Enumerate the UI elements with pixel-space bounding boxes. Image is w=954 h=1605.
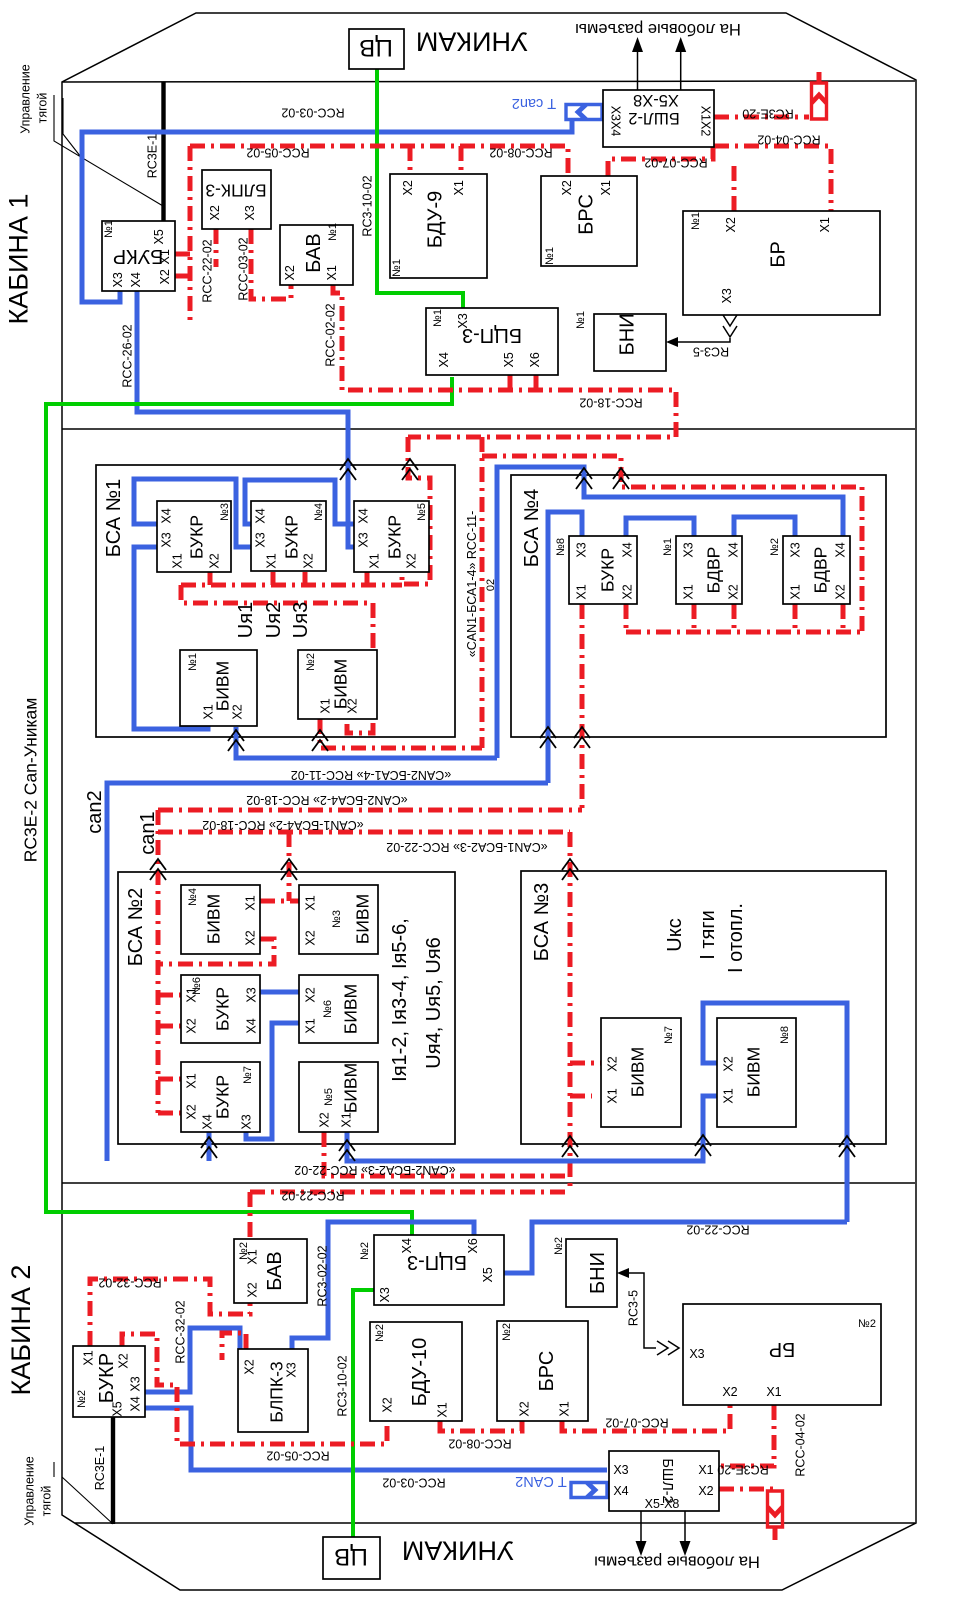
wire blue BUKR8 X4 to BDVR1 X3 bbox=[626, 518, 694, 536]
wire RC3E-20 (red, BShL-2 X1 to corner connector) bbox=[714, 72, 819, 117]
svg-text:БСА №4: БСА №4 bbox=[521, 489, 543, 567]
svg-text:БУКР: БУКР bbox=[212, 1075, 232, 1119]
svg-text:RCC-04-02: RCC-04-02 bbox=[794, 1413, 808, 1476]
svg-text:X1X2: X1X2 bbox=[699, 106, 713, 137]
wire BR X2 red stub bbox=[732, 160, 737, 211]
svg-text:БАВ: БАВ bbox=[264, 1251, 286, 1290]
box BIVM no3 (BSA2) bbox=[299, 885, 378, 954]
connector RC3-5 (cab2, black chevrons pointing right) bbox=[657, 1341, 679, 1355]
cable chevron BSA3 top red bbox=[562, 859, 578, 880]
wire blue CAN2-BSA2-3 (BIVM5 X1 to BIVM8 X1) bbox=[347, 1096, 717, 1161]
svg-text:«CAN1-БСА4-2» RCC-18-02: «CAN1-БСА4-2» RCC-18-02 bbox=[202, 818, 363, 832]
svg-text:№1: №1 bbox=[187, 653, 199, 671]
svg-text:№1: №1 bbox=[103, 220, 115, 238]
wire red CAN1-BSA4-2 / CAN1-BSA2-3 horizontal bbox=[158, 830, 570, 835]
connector T CAN2 (cab2, blue, pointing right into BShL-2 X4) bbox=[571, 1483, 607, 1498]
svg-text:Uя3: Uя3 bbox=[290, 602, 312, 638]
svg-text:X1: X1 bbox=[606, 1088, 620, 1103]
box BIVM no1 bbox=[180, 650, 257, 726]
separator line bottom (UNIKAM band) bbox=[75, 1522, 915, 1524]
box BIVM no2 bbox=[298, 650, 377, 719]
box BSA no3 bbox=[521, 871, 886, 1144]
svg-text:X1: X1 bbox=[436, 1402, 450, 1417]
box BDU-10 (cab2) bbox=[370, 1322, 462, 1421]
svg-text:X6: X6 bbox=[466, 1238, 480, 1253]
wire red trunk into BSA4 (BDVR2 X4 side) bbox=[482, 456, 862, 632]
wire red RCC-32-02 (BUKR X1 to BAV X2) bbox=[90, 1279, 250, 1346]
svg-text:БИВМ: БИВМ bbox=[212, 661, 232, 711]
svg-text:X2: X2 bbox=[304, 930, 318, 945]
svg-text:№1: №1 bbox=[690, 212, 702, 230]
wire blue BUKR3 X3 down to BIVM1 X1 bbox=[134, 547, 208, 729]
wire red RCC-08-02 (BDU-10 X1 to BRS X2) bbox=[440, 1421, 522, 1431]
arrowhead into BNI bbox=[666, 337, 678, 347]
svg-text:X1: X1 bbox=[368, 553, 382, 568]
box BUKR no4 bbox=[251, 501, 326, 571]
svg-text:RCC-08-02: RCC-08-02 bbox=[448, 1437, 511, 1451]
box BIVM no8 (BSA3) bbox=[717, 1018, 796, 1127]
svg-text:RC3E-2 Can-Уникам: RC3E-2 Can-Уникам bbox=[20, 698, 40, 863]
svg-text:X4: X4 bbox=[160, 508, 174, 523]
wire red BUKR8 X1 down to RCC-18-02 trunk bbox=[580, 604, 585, 810]
wire blue BSA4 entry bus to BDVR2 X4 bbox=[497, 467, 843, 758]
svg-text:X4: X4 bbox=[254, 508, 268, 523]
svg-text:RC3-5: RC3-5 bbox=[627, 1290, 641, 1326]
svg-text:№5: №5 bbox=[323, 1088, 335, 1106]
svg-text:X2: X2 bbox=[727, 584, 741, 599]
wire blue BUKR4 X3 to BUKR3 X4 bbox=[134, 479, 252, 547]
box BRS (cab1) bbox=[541, 176, 637, 266]
svg-text:БУКР: БУКР bbox=[96, 1353, 118, 1403]
wire blue RCC-03-02 (cab2, BUKR X4 to BShL-2 X3) bbox=[145, 1408, 607, 1470]
box BLPK-3 (cab1) bbox=[202, 170, 271, 229]
cable chevron BSA4 top red bbox=[613, 468, 629, 489]
svg-text:X2: X2 bbox=[724, 217, 738, 232]
svg-text:X2: X2 bbox=[606, 1056, 620, 1071]
wire blue BUKR7 X3 to BIVM6 X1 bbox=[246, 1023, 299, 1139]
svg-text:X4: X4 bbox=[129, 272, 143, 287]
svg-text:X2: X2 bbox=[185, 1104, 199, 1119]
cable chevron BSA4 top blue bbox=[576, 468, 592, 489]
svg-text:Управление: Управление bbox=[19, 64, 33, 134]
svg-text:БИВМ: БИВМ bbox=[352, 894, 372, 944]
svg-text:№2: №2 bbox=[359, 1242, 371, 1260]
svg-text:X5-X8: X5-X8 bbox=[633, 91, 679, 109]
wire green RC3-10-02 (cab2, BTsP-3 X3 to TsV) bbox=[353, 1290, 374, 1537]
svg-text:I тяги: I тяги bbox=[697, 910, 719, 960]
cable chevron BSA1 top red bbox=[402, 459, 418, 480]
box BUKR no3 bbox=[157, 501, 231, 572]
svg-text:X1: X1 bbox=[575, 584, 589, 599]
svg-text:X1: X1 bbox=[599, 180, 613, 195]
svg-text:БСА №3: БСА №3 bbox=[531, 883, 553, 961]
svg-text:№1: №1 bbox=[544, 247, 556, 265]
svg-text:Iя1-2, Iя3-4, Iя5-6,: Iя1-2, Iя3-4, Iя5-6, bbox=[389, 918, 411, 1082]
svg-text:RC3E-20: RC3E-20 bbox=[742, 107, 793, 121]
svg-text:X4: X4 bbox=[400, 1238, 414, 1253]
svg-text:БСА №2: БСА №2 bbox=[125, 888, 147, 966]
cable chevron BSA3 bottom red bbox=[562, 1136, 578, 1157]
wire red CAN1-BSA1-4 RCC-11-02 vertical trunk bbox=[480, 437, 485, 748]
svg-text:RC3E-1: RC3E-1 bbox=[93, 1446, 107, 1491]
box BIVM no6 (BSA2) bbox=[299, 975, 378, 1043]
svg-text:БР: БР bbox=[768, 241, 790, 267]
cable chevron BSA3 bottom blue right bbox=[839, 1136, 855, 1157]
svg-text:БЦП-3: БЦП-3 bbox=[462, 324, 522, 346]
wire blue BIVM8 X2 up-over-down to cab2 RCC-22-02 bbox=[703, 1003, 847, 1222]
connector T can2 (blue, pointing right into BShL-2) bbox=[566, 105, 602, 120]
svg-text:№1: №1 bbox=[432, 309, 444, 327]
svg-text:X4: X4 bbox=[834, 542, 848, 557]
svg-text:X2: X2 bbox=[231, 704, 245, 719]
connector RC3E-20 (cab2, red, pointing down) bbox=[768, 1491, 783, 1527]
svg-text:X2: X2 bbox=[304, 987, 318, 1002]
box BSA no4 bbox=[511, 475, 886, 737]
svg-text:№1: №1 bbox=[662, 538, 674, 556]
box BSA no1 bbox=[96, 465, 455, 737]
svg-text:БУКР: БУКР bbox=[212, 987, 232, 1031]
svg-text:КАБИНА 2: КАБИНА 2 bbox=[6, 1265, 36, 1396]
svg-text:X1: X1 bbox=[265, 553, 279, 568]
svg-text:«CAN1-БСА1-4» RCC-11-: «CAN1-БСА1-4» RCC-11- bbox=[465, 511, 479, 657]
box BR (cab1) bbox=[683, 211, 880, 315]
box TsV (cab1) bbox=[349, 29, 404, 69]
wire blue BLPK-3 X3 to BTsP-3 X6 bbox=[292, 1222, 474, 1349]
svg-text:RCC-07-02: RCC-07-02 bbox=[644, 156, 707, 170]
box TsV (cab2) bbox=[323, 1537, 380, 1579]
svg-text:RCC-32-02: RCC-32-02 bbox=[98, 1276, 161, 1290]
box BIVM no7 (BSA3) bbox=[601, 1018, 681, 1127]
svg-text:На лобовые разъемы: На лобовые разъемы bbox=[575, 20, 741, 38]
svg-text:X1: X1 bbox=[722, 1088, 736, 1103]
cable chevron BSA1 bottom blue bbox=[228, 730, 244, 751]
svg-text:X1: X1 bbox=[82, 1350, 96, 1365]
svg-text:X3: X3 bbox=[575, 542, 589, 557]
wire RC3-5 (cab2, black, BR X3 to BNI) bbox=[623, 1273, 656, 1348]
svg-text:БСА №1: БСА №1 bbox=[103, 479, 125, 557]
svg-text:X2: X2 bbox=[381, 1397, 395, 1412]
svg-text:X3: X3 bbox=[111, 272, 125, 287]
svg-text:№7: №7 bbox=[663, 1026, 675, 1044]
wire red trunk into BSA3 (BIVM7) down to cab2 bbox=[570, 832, 601, 1192]
svg-text:БУКР: БУКР bbox=[281, 515, 301, 559]
svg-text:RCC-05-02: RCC-05-02 bbox=[246, 146, 309, 160]
arrowhead into BNI (cab2) bbox=[617, 1268, 629, 1278]
svg-text:X3: X3 bbox=[682, 542, 696, 557]
box BUKR no8 (BSA4) bbox=[569, 536, 637, 604]
wire red CAN2-BSA2-3 RCC-22-02 (BIVM5 X2) bbox=[324, 1132, 570, 1176]
svg-text:БУКР: БУКР bbox=[186, 515, 206, 559]
svg-text:RCC-07-02: RCC-07-02 bbox=[605, 1416, 668, 1430]
box BUKR no2 (cab2) bbox=[73, 1346, 145, 1417]
svg-text:X3: X3 bbox=[689, 1347, 704, 1361]
svg-text:БИВМ: БИВМ bbox=[340, 984, 360, 1034]
box BNI (cab1) bbox=[594, 314, 666, 371]
svg-text:RC3-5: RC3-5 bbox=[693, 345, 729, 359]
svg-text:RCC-03-02: RCC-03-02 bbox=[237, 237, 251, 300]
wire red RCC-18-02 entry into BSA1 (to BUKR5 X2) bbox=[402, 437, 430, 584]
svg-text:«CAN2-БСА4-2» RCC-18-02: «CAN2-БСА4-2» RCC-18-02 bbox=[246, 793, 407, 807]
svg-text:X3: X3 bbox=[789, 542, 803, 557]
svg-text:X1: X1 bbox=[325, 265, 339, 280]
wire red BSA4 bottom chain bbox=[626, 604, 862, 632]
svg-text:№3: №3 bbox=[331, 910, 343, 928]
box BTsP-3 (cab2) bbox=[374, 1235, 504, 1305]
wire red BIVM4 X2 loop to can1 bbox=[158, 939, 274, 964]
svg-text:X2: X2 bbox=[621, 584, 635, 599]
wire blue RCC-22-02 (BTsP-3 X5 to BSA3) bbox=[504, 1222, 847, 1273]
svg-text:X5: X5 bbox=[502, 352, 516, 367]
connector RC3-5 (black chevrons pointing down) bbox=[723, 315, 737, 337]
svg-text:X1: X1 bbox=[698, 1463, 713, 1477]
box BUKR no1 (cab1) bbox=[102, 221, 175, 291]
svg-text:X2: X2 bbox=[243, 1359, 257, 1374]
svg-text:X1: X1 bbox=[158, 249, 172, 264]
box BShL-2 (cab2) bbox=[609, 1451, 719, 1511]
wire red BIVM2 X1 to CAN1-BSA1-4 trunk bbox=[320, 719, 482, 748]
wire red BSA1 bottom chain (BUKR X1/X2 pins to BIVM2 X2) bbox=[181, 572, 402, 733]
box BIVM no4 (BSA2) bbox=[181, 885, 260, 954]
box BLPK-3 (cab2) bbox=[238, 1349, 308, 1432]
svg-text:БУКР: БУКР bbox=[113, 245, 163, 267]
svg-text:RCC-03-02: RCC-03-02 bbox=[281, 106, 344, 120]
svg-text:№2: №2 bbox=[501, 1323, 513, 1341]
svg-text:№8: №8 bbox=[555, 538, 567, 556]
arrow to front connectors (cab2 left) bbox=[640, 1511, 642, 1542]
box BAV (cab1) bbox=[280, 225, 353, 285]
svg-text:тягой: тягой bbox=[40, 1486, 54, 1517]
svg-text:X3: X3 bbox=[129, 1376, 143, 1391]
svg-text:УНИКАМ: УНИКАМ bbox=[416, 27, 528, 57]
svg-text:УНИКАМ: УНИКАМ bbox=[402, 1536, 514, 1566]
svg-text:Uя2: Uя2 bbox=[263, 602, 285, 638]
svg-text:№2: №2 bbox=[858, 1318, 876, 1330]
wire red RCC-22-02 to cab2 BAV bbox=[250, 1192, 570, 1239]
svg-text:X4: X4 bbox=[437, 352, 451, 367]
svg-text:X3: X3 bbox=[456, 313, 470, 328]
svg-text:БУКР: БУКР bbox=[384, 515, 404, 559]
box BAV (cab2) bbox=[234, 1239, 307, 1303]
wire RC3-10-02 (green, TsV to BTsP-3 X3) bbox=[377, 69, 463, 308]
cable chevron BSA1 bottom red bbox=[312, 730, 328, 751]
wire RCC-26-02 (cab1 BUKR X4 to BSA1, blue) bbox=[137, 291, 355, 547]
svg-text:X2: X2 bbox=[560, 180, 574, 195]
svg-text:X1: X1 bbox=[246, 1249, 260, 1264]
svg-text:RCC-22-02: RCC-22-02 bbox=[281, 1189, 344, 1203]
svg-text:X1: X1 bbox=[319, 698, 333, 713]
svg-text:X2: X2 bbox=[405, 553, 419, 568]
svg-text:X2: X2 bbox=[158, 269, 172, 284]
wire RCC-03-02 (cab1, blue bus to BShL-2) bbox=[82, 120, 572, 302]
svg-text:№5: №5 bbox=[416, 503, 428, 521]
svg-text:X2: X2 bbox=[698, 1484, 713, 1498]
svg-text:X1: X1 bbox=[244, 895, 258, 910]
box BDU-9 (cab1) bbox=[390, 174, 487, 278]
box BR (cab2) bbox=[683, 1304, 881, 1405]
connector RC3E-20 (red, pointing up) bbox=[812, 83, 827, 119]
svg-text:№6: №6 bbox=[322, 1000, 334, 1018]
box BNI (cab2) bbox=[566, 1239, 617, 1307]
wire RCC-22-02 (red, BUKR X1 X2 stubs) bbox=[175, 146, 190, 325]
svg-text:№4: №4 bbox=[313, 503, 325, 521]
svg-text:RCC-05-02: RCC-05-02 bbox=[266, 1449, 329, 1463]
svg-text:X2: X2 bbox=[834, 584, 848, 599]
arrow to front connectors (right) bbox=[680, 50, 682, 90]
box BSA no2 bbox=[118, 872, 455, 1144]
svg-text:X2: X2 bbox=[117, 1353, 131, 1368]
svg-text:X1: X1 bbox=[304, 1018, 318, 1033]
svg-text:RC3E-1: RC3E-1 bbox=[146, 134, 160, 179]
arrow to front connectors (cab2 right) bbox=[684, 1511, 686, 1542]
wire red can1 vertical (BSA2) bbox=[158, 810, 181, 1113]
svg-text:X2: X2 bbox=[246, 1282, 260, 1297]
wire red BIVM4/BIVM3 X1 link up to CAN1 bbox=[260, 832, 299, 901]
cable chevron BSA2 top red bbox=[281, 859, 297, 880]
wire RC3E-1 (cab1, black) bbox=[161, 82, 165, 221]
svg-text:X5: X5 bbox=[481, 1267, 495, 1282]
svg-text:X6: X6 bbox=[528, 352, 542, 367]
svg-text:БШЛ-2: БШЛ-2 bbox=[628, 109, 679, 127]
svg-text:X2: X2 bbox=[185, 1018, 199, 1033]
svg-text:БДУ-9: БДУ-9 bbox=[425, 191, 447, 248]
svg-text:тягой: тягой bbox=[36, 93, 50, 124]
svg-text:X5: X5 bbox=[111, 1401, 125, 1416]
wire red RCC-04-02 (BR X1 to BShL-2 X1) bbox=[719, 1405, 774, 1466]
box BUKR no6 (BSA2) bbox=[181, 975, 260, 1043]
wire blue BUKR cab2 X3 to BLPK-3 X2 bbox=[145, 1328, 240, 1392]
svg-text:«CAN2-БСА1-4» RCC-11-02: «CAN2-БСА1-4» RCC-11-02 bbox=[291, 768, 451, 782]
svg-text:Т CAN2: Т CAN2 bbox=[515, 1473, 567, 1489]
divider cab1/middle bbox=[62, 428, 915, 430]
svg-text:X2: X2 bbox=[283, 265, 297, 280]
wire green BTsP-3 X4 down left side to cab2 bbox=[46, 377, 452, 1235]
svg-text:02: 02 bbox=[485, 579, 497, 591]
svg-text:№3: №3 bbox=[219, 503, 231, 521]
svg-text:RCC-26-02: RCC-26-02 bbox=[121, 324, 135, 387]
callout leader bottom-left bbox=[54, 1462, 113, 1524]
svg-text:X3: X3 bbox=[243, 205, 257, 220]
box BUKR no7 (BSA2) bbox=[181, 1062, 260, 1132]
cable chevron BSA2 bottom blue right bbox=[339, 1140, 355, 1161]
svg-text:X3: X3 bbox=[357, 532, 371, 547]
svg-text:Uя1: Uя1 bbox=[235, 602, 257, 638]
svg-text:БЛПК-3: БЛПК-3 bbox=[205, 181, 266, 201]
svg-text:БИВМ: БИВМ bbox=[340, 1063, 360, 1113]
svg-text:№2: №2 bbox=[305, 653, 317, 671]
wire blue BUKR5 X4 to BUKR4 X4 bbox=[245, 480, 355, 524]
svg-text:Т can2: Т can2 bbox=[512, 95, 556, 111]
wire RC3-5 (black, BR X3 to BNI arrow) bbox=[672, 338, 730, 342]
svg-text:Управление: Управление bbox=[23, 1456, 37, 1526]
wire blue can2 vertical + CAN2-BSA1-4 horizontal bbox=[107, 783, 548, 1161]
svg-text:X3: X3 bbox=[613, 1463, 628, 1477]
svg-text:БИВМ: БИВМ bbox=[743, 1047, 763, 1097]
box BIVM no5 (BSA2) bbox=[299, 1062, 378, 1132]
svg-text:№1: №1 bbox=[327, 223, 339, 241]
svg-text:X1: X1 bbox=[818, 217, 832, 232]
wire RCC-07-02 (red, BRS X1 to BShL-2) bbox=[608, 146, 713, 176]
svg-text:БИВМ: БИВМ bbox=[203, 894, 223, 944]
svg-text:На лобовые разъемы: На лобовые разъемы bbox=[594, 1553, 760, 1571]
svg-text:X2: X2 bbox=[302, 553, 316, 568]
cable chevron BSA2 bottom blue left bbox=[201, 1137, 217, 1158]
svg-text:БР: БР bbox=[769, 1338, 795, 1360]
svg-text:№2: №2 bbox=[769, 538, 781, 556]
wire red CAN2-BSA4-2 RCC-18-02 horizontal bbox=[158, 808, 582, 813]
divider middle/cab2 bbox=[62, 1182, 915, 1184]
svg-text:X1: X1 bbox=[304, 895, 318, 910]
svg-text:X5-X8: X5-X8 bbox=[645, 1497, 680, 1511]
svg-text:Uя4, Uя5, Uя6: Uя4, Uя5, Uя6 bbox=[423, 937, 445, 1068]
wire blue BUKR6 X3 to BIVM6 X2 bbox=[260, 990, 299, 995]
svg-text:X2: X2 bbox=[244, 930, 258, 945]
svg-text:БДВР: БДВР bbox=[810, 547, 830, 594]
svg-text:can2: can2 bbox=[84, 790, 106, 833]
svg-text:X2: X2 bbox=[208, 205, 222, 220]
separator line top (UNIKAM band) bbox=[62, 81, 915, 82]
svg-text:X1: X1 bbox=[340, 1112, 354, 1127]
svg-text:БУКР: БУКР bbox=[597, 548, 617, 592]
svg-text:БРС: БРС bbox=[576, 194, 598, 235]
svg-text:RC3-10-02: RC3-10-02 bbox=[361, 175, 375, 236]
svg-text:RC3-02-02: RC3-02-02 bbox=[316, 1245, 330, 1306]
svg-text:БИВМ: БИВМ bbox=[627, 1047, 647, 1097]
svg-text:X1: X1 bbox=[766, 1385, 781, 1399]
box BDVR no1 (BSA4) bbox=[676, 536, 742, 604]
svg-text:X2: X2 bbox=[722, 1056, 736, 1071]
svg-text:X4: X4 bbox=[613, 1484, 628, 1498]
svg-text:X3X4: X3X4 bbox=[609, 106, 623, 137]
svg-text:БРС: БРС bbox=[536, 1351, 558, 1392]
svg-text:RCC-22-02: RCC-22-02 bbox=[201, 239, 215, 302]
svg-text:X3: X3 bbox=[720, 288, 734, 303]
svg-text:I отопл.: I отопл. bbox=[725, 903, 747, 973]
svg-text:«CAN2-БСА2-3» RCC-22-02: «CAN2-БСА2-3» RCC-22-02 bbox=[294, 1163, 455, 1177]
box BUKR no5 bbox=[354, 501, 429, 572]
cable chevron BSA4 bottom blue bbox=[540, 727, 556, 748]
wire RC3E-1 (cab2, black) bbox=[111, 1417, 115, 1524]
svg-text:ЦВ: ЦВ bbox=[359, 34, 393, 61]
svg-text:X2: X2 bbox=[208, 553, 222, 568]
svg-text:X3: X3 bbox=[245, 987, 259, 1002]
svg-text:X1: X1 bbox=[789, 584, 803, 599]
svg-text:БНИ: БНИ bbox=[587, 1252, 609, 1294]
wire red BLPK-3 X2 stub bbox=[222, 1333, 246, 1360]
svg-text:X4: X4 bbox=[357, 508, 371, 523]
svg-text:RCC-08-02: RCC-08-02 bbox=[489, 146, 552, 160]
svg-text:Uкс: Uкс bbox=[664, 918, 686, 951]
cable chevron BSA4 bottom red bbox=[574, 727, 590, 748]
svg-text:БДУ-10: БДУ-10 bbox=[409, 1338, 431, 1407]
svg-text:БАВ: БАВ bbox=[303, 233, 325, 272]
box BDVR no2 (BSA4) bbox=[783, 536, 850, 604]
svg-text:№4: №4 bbox=[187, 888, 199, 906]
svg-text:X1: X1 bbox=[171, 553, 185, 568]
svg-text:X4: X4 bbox=[201, 1114, 215, 1129]
svg-text:X3: X3 bbox=[240, 1114, 254, 1129]
svg-text:RCC-04-02: RCC-04-02 bbox=[757, 133, 820, 147]
wire red BUKR X2 knot to RCC-05-02 and BDU-10 X2 bbox=[122, 1334, 387, 1444]
svg-text:№2: №2 bbox=[76, 1390, 88, 1408]
svg-text:ЦВ: ЦВ bbox=[334, 1543, 368, 1570]
svg-text:№8: №8 bbox=[779, 1026, 791, 1044]
svg-text:X5: X5 bbox=[152, 229, 166, 244]
wire RCC-02-02 + RCC-18-02 (BAV X1 to BTsP X5 X6, down to CAN trunk) bbox=[333, 285, 676, 437]
wire blue BUKR8 X3 to CAN2 trunk bbox=[548, 512, 582, 783]
svg-text:X4: X4 bbox=[621, 542, 635, 557]
cable chevron BSA2 top red can1 bbox=[150, 859, 166, 880]
wire blue BDVR1 X4 to BDVR2 X3 bbox=[734, 517, 795, 536]
